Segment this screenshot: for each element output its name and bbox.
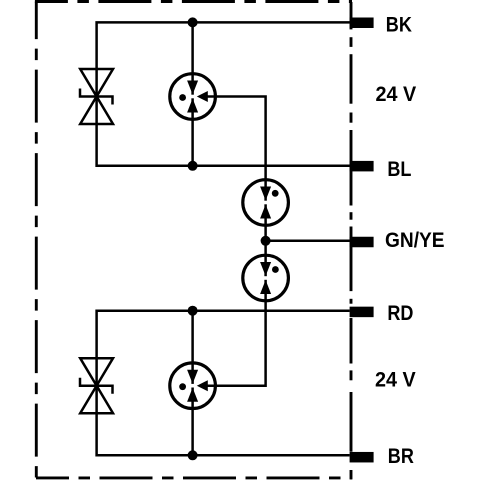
svg-text:BL: BL [387, 158, 411, 182]
svg-text:BR: BR [388, 444, 414, 468]
svg-text:24 V: 24 V [375, 368, 416, 392]
svg-text:RD: RD [387, 302, 413, 326]
svg-text:24 V: 24 V [376, 82, 417, 106]
svg-text:GN/YE: GN/YE [385, 229, 445, 252]
svg-text:BK: BK [386, 13, 413, 37]
